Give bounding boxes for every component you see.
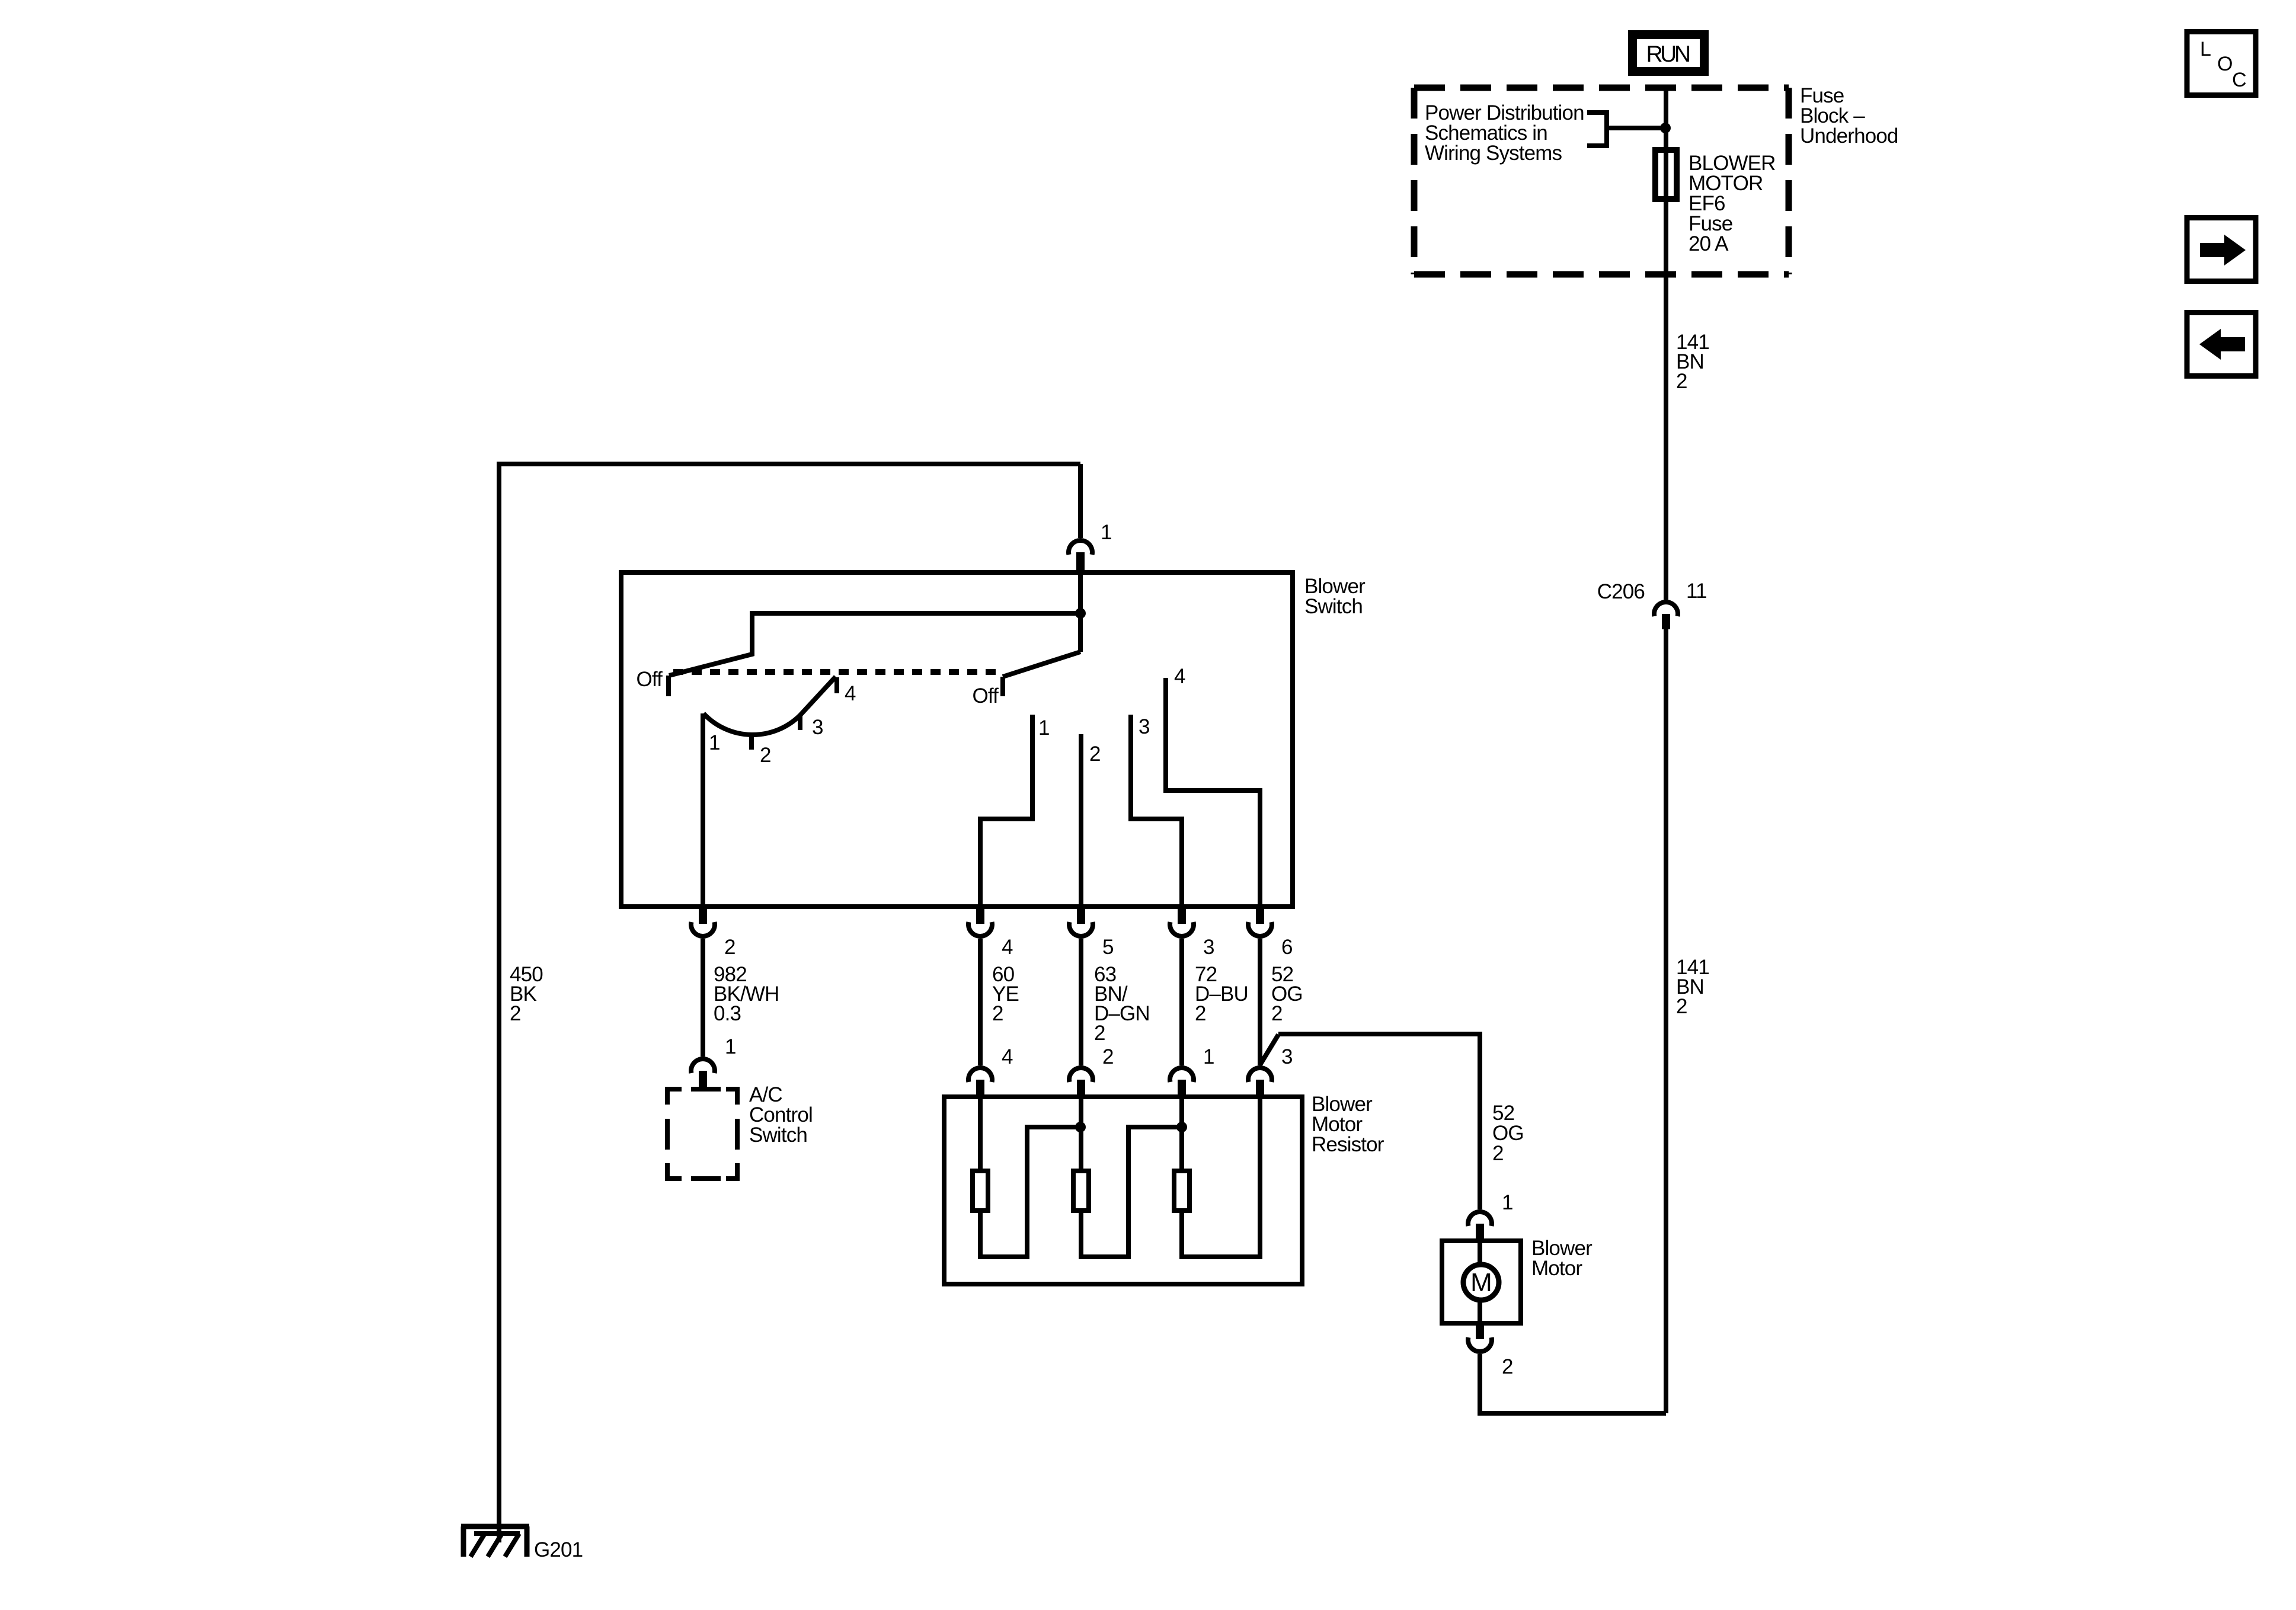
svg-text:3: 3 (1139, 715, 1150, 738)
svg-text:1: 1 (1203, 1045, 1214, 1068)
svg-text:2: 2 (1502, 1355, 1513, 1378)
svg-text:L: L (2200, 38, 2211, 60)
svg-text:3: 3 (812, 716, 823, 739)
svg-text:M: M (1470, 1268, 1492, 1297)
svg-text:5: 5 (1102, 936, 1114, 959)
svg-text:BlowerSwitch: BlowerSwitch (1304, 575, 1366, 618)
svg-text:RUN: RUN (1646, 41, 1689, 67)
svg-text:3: 3 (1203, 936, 1214, 959)
svg-text:4: 4 (1002, 936, 1013, 959)
svg-text:Off: Off (973, 684, 999, 708)
svg-text:2: 2 (724, 936, 736, 959)
svg-text:4: 4 (1002, 1045, 1013, 1068)
svg-text:1: 1 (1038, 716, 1050, 740)
svg-text:2: 2 (1102, 1045, 1114, 1068)
svg-text:G201: G201 (534, 1538, 583, 1561)
svg-text:2: 2 (760, 744, 771, 767)
svg-text:1: 1 (725, 1035, 736, 1058)
svg-text:1: 1 (1502, 1191, 1513, 1214)
svg-text:C: C (2232, 69, 2246, 91)
svg-text:4: 4 (1174, 665, 1185, 688)
svg-text:1: 1 (1101, 521, 1112, 544)
svg-text:C206: C206 (1597, 580, 1645, 603)
svg-text:4: 4 (845, 682, 856, 705)
svg-text:Off: Off (637, 668, 663, 691)
svg-text:6: 6 (1281, 936, 1293, 959)
svg-text:11: 11 (1686, 580, 1707, 603)
svg-text:1: 1 (709, 731, 720, 754)
svg-text:2: 2 (1089, 742, 1101, 766)
svg-text:O: O (2217, 53, 2233, 75)
svg-text:3: 3 (1281, 1045, 1293, 1068)
